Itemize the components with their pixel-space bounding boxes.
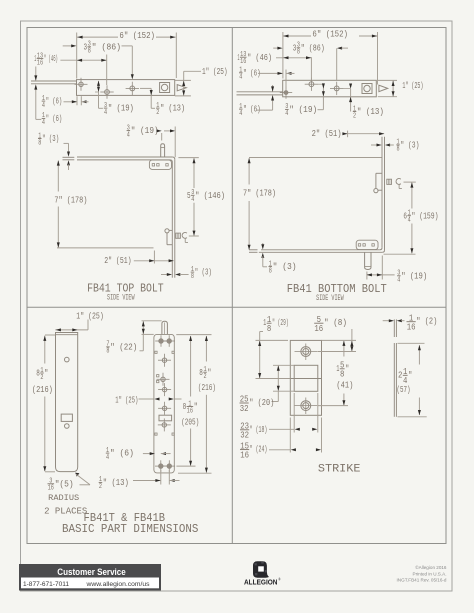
- svg-text:2: 2: [40, 374, 43, 382]
- Q2 top view: hole 2: [309, 82, 314, 87]
- svg-text:2: 2: [99, 483, 102, 491]
- svg-text:4: 4: [239, 74, 242, 82]
- Q1 side view: bolt rod up: [161, 144, 165, 157]
- svg-text:" (29): " (29): [272, 317, 289, 328]
- Q1 dim 5-3/4in (146): [178, 157, 198, 159]
- svg-text:" (3): " (3): [273, 261, 297, 272]
- svg-text:"(5): "(5): [55, 478, 74, 489]
- Q1 top view: guide square with circle: [160, 83, 170, 93]
- Q2 side view: bolt guide block: [356, 240, 378, 249]
- Q2 side view: vertical channel: [381, 137, 383, 248]
- svg-text:" (6): " (6): [243, 104, 261, 115]
- Q3 top reference line right: [176, 334, 211, 336]
- svg-text:" (6): " (6): [243, 67, 261, 78]
- svg-text:8: 8: [267, 324, 271, 334]
- svg-text:" (19): " (19): [401, 270, 427, 281]
- Q2 side view: top reference line: [249, 157, 382, 159]
- svg-text:8: 8: [36, 368, 40, 379]
- Q1 dim 6in (152) line: [77, 36, 118, 38]
- svg-text:BASIC PART DIMENSIONS: BASIC PART DIMENSIONS: [62, 522, 199, 536]
- svg-text:16: 16: [407, 323, 416, 333]
- Q3 right plate corner squares bottom: [155, 433, 157, 435]
- Q3 right plate bottom hole pair: [159, 464, 163, 468]
- Q1 side view: bottom reference line: [57, 247, 154, 249]
- svg-text:16: 16: [187, 407, 193, 415]
- svg-text:4: 4: [408, 217, 411, 225]
- Q4 strike middle bend line: [290, 378, 321, 380]
- Q2 side view: bottom plate reference line: [384, 253, 416, 255]
- Q3 left plate FB41T outline: [56, 333, 78, 472]
- Q2 side view: bolt rod down: [365, 252, 371, 269]
- svg-text:": ": [408, 369, 412, 380]
- Q3 right plate rod at top: [162, 321, 168, 334]
- Q1 side view: knurled knob: [176, 233, 181, 238]
- svg-text:" (86): " (86): [301, 42, 325, 53]
- Q2 centerline symbol: [396, 179, 401, 185]
- svg-text:1" (25): 1" (25): [76, 310, 104, 321]
- svg-text:" (13): " (13): [103, 477, 129, 488]
- svg-text:" (86): " (86): [92, 41, 122, 52]
- svg-text:" (6): " (6): [46, 113, 62, 124]
- Q2 dim 6in (152) line: [283, 35, 311, 37]
- svg-text:3: 3: [84, 41, 88, 52]
- Q1 top view: bolt rod (edge-on) extending left: [31, 80, 77, 82]
- svg-text:(57): (57): [397, 384, 411, 395]
- svg-text:" (3): " (3): [400, 140, 419, 151]
- svg-text:" (3): " (3): [195, 267, 212, 278]
- Q1 top view: hole 1: [79, 82, 83, 86]
- svg-text:" (159): " (159): [412, 210, 439, 221]
- svg-text:" (8): " (8): [324, 317, 347, 328]
- allegion logo glyph: [253, 561, 269, 577]
- svg-text:8: 8: [106, 348, 109, 356]
- svg-text:" (146): " (146): [195, 190, 225, 201]
- Q1 dim 1in (25) at bolt tip: [175, 79, 191, 81]
- Q2 side view: knurled knob: [387, 179, 392, 184]
- svg-text:2" (51): 2" (51): [104, 255, 131, 266]
- Q2 side view: flat bar stub: [249, 249, 258, 251]
- svg-text:SIDE VIEW: SIDE VIEW: [107, 294, 135, 303]
- svg-text:1" (25): 1" (25): [115, 395, 138, 406]
- Q3 right plate lower hole: [162, 423, 166, 427]
- Q1 dim 7in (178) overall height: [57, 161, 59, 192]
- svg-text:" (6): " (6): [46, 96, 62, 107]
- Q3 right plate FB41B outline: [154, 334, 174, 473]
- svg-text:8: 8: [397, 146, 400, 154]
- Q3 right plate mount cluster: [157, 375, 159, 377]
- svg-text:" (46): " (46): [247, 52, 272, 63]
- svg-text:16: 16: [314, 324, 323, 334]
- Q2 top view: hole 3: [334, 86, 339, 91]
- Q1 side view: vertical channel: [174, 159, 176, 277]
- Q3 right plate middle hole: [162, 406, 166, 410]
- Q4 strike plate outline: [290, 340, 321, 415]
- Q3 right plate top hole pair: [159, 339, 163, 343]
- Q2 side view: release lever: [374, 189, 378, 193]
- Q3 right plate corner squares top: [155, 351, 157, 353]
- Q1 dim 6in extension lines: [76, 33, 78, 79]
- Q2 top view: hole 1: [284, 91, 288, 95]
- svg-text:www.allegion.com/us: www.allegion.com/us: [85, 581, 150, 588]
- svg-text:": ": [194, 401, 198, 412]
- Q1 side view: release lever: [165, 229, 169, 233]
- svg-text:5: 5: [187, 190, 191, 201]
- svg-text:7" (178): 7" (178): [54, 195, 87, 206]
- svg-text:©Allegion 2016: ©Allegion 2016: [415, 564, 447, 570]
- svg-text:2: 2: [204, 373, 207, 381]
- footer customer service box: [19, 564, 161, 591]
- svg-text:4: 4: [106, 454, 109, 462]
- svg-text:6" (152): 6" (152): [312, 29, 348, 40]
- svg-text:6: 6: [403, 210, 407, 221]
- Q2 top view: pointed bolt tip: [379, 85, 388, 91]
- Q2 dim 7in (178): [248, 158, 250, 184]
- Q4 dim 25/32in (20): [277, 366, 279, 391]
- Q1 top view: hole 3: [130, 86, 135, 91]
- vertical divider between quadrants: [231, 28, 233, 544]
- svg-text:4: 4: [285, 110, 288, 118]
- svg-text:4: 4: [104, 109, 107, 117]
- svg-text:4: 4: [42, 102, 45, 110]
- Q3 left plate hole 2: [65, 424, 70, 429]
- Q2 dim 6in extension lines: [282, 32, 284, 79]
- Q1 dim 3-3/8in (86) leader and text: [63, 45, 73, 47]
- Q1 top view: flat bar body: [77, 80, 175, 96]
- svg-text:" (3): " (3): [42, 133, 59, 144]
- svg-text:" (13): " (13): [160, 103, 185, 114]
- svg-text:2: 2: [398, 369, 403, 380]
- Q3 dim 8-1/2in (216) right: [205, 336, 207, 362]
- Q4 dim 2-1/4in (57): [418, 345, 420, 364]
- Q1 dim 3/4in (19) below bar: [98, 81, 100, 108]
- Q3 dim 8-1/2in (216) left: [45, 334, 55, 336]
- svg-text:2" (51): 2" (51): [312, 128, 342, 139]
- Q4 dim 1/16in (2): [383, 320, 390, 322]
- svg-text:6" (152): 6" (152): [119, 30, 155, 41]
- svg-text:16: 16: [240, 58, 246, 66]
- Q1 side view: flat bar edge-on: [77, 156, 173, 158]
- Q2 reference line from knob centerline: [404, 181, 416, 183]
- svg-text:(216): (216): [32, 384, 53, 395]
- svg-text:" (19): " (19): [131, 125, 159, 136]
- svg-text:16: 16: [48, 485, 54, 493]
- Q2 dim 3/4in (19) rod offset: [366, 272, 368, 280]
- Q1 dim 1/8in (3) channel thickness: [161, 274, 167, 276]
- Q1 side view: flat bar stub (dim ext): [63, 156, 75, 158]
- svg-text:STRIKE: STRIKE: [318, 463, 361, 475]
- Q2 dim 1/8in (3) channel thickness: [371, 144, 377, 146]
- horizontal divider between quadrants: [27, 306, 446, 308]
- svg-text:16: 16: [240, 450, 249, 460]
- svg-text:(216): (216): [198, 382, 216, 393]
- svg-text:INGT.FB41 Rev. 05/16-d: INGT.FB41 Rev. 05/16-d: [397, 578, 447, 583]
- Q2 top view: flat bar body: [283, 80, 377, 97]
- Q4 strike top screw hole: [301, 347, 311, 357]
- svg-text:Printed in U.S.A.: Printed in U.S.A.: [413, 571, 447, 576]
- svg-text:Customer Service: Customer Service: [57, 567, 126, 577]
- svg-text:4: 4: [127, 131, 130, 139]
- svg-text:8: 8: [88, 48, 91, 56]
- Q4 strike side view thin plate main segment: [393, 343, 395, 417]
- svg-text:4: 4: [42, 119, 45, 127]
- Q1 dim 1/2in (13) below bar: [140, 87, 151, 89]
- svg-text:2: 2: [156, 109, 159, 117]
- Q2 top view: bolt rod (edge-on) extending left: [237, 91, 283, 93]
- svg-text:2 PLACES: 2 PLACES: [44, 507, 87, 517]
- svg-text:16: 16: [37, 59, 43, 67]
- svg-text:4: 4: [191, 196, 194, 204]
- svg-text:8: 8: [297, 49, 300, 57]
- Q1 top view: pointed bolt tip: [177, 85, 186, 91]
- Q4 strike box opening: [294, 365, 318, 391]
- Q3 right plate slot: [159, 415, 172, 421]
- svg-text:" (19): " (19): [289, 104, 317, 115]
- Q2 dim 1/2in (13) below bar: [350, 89, 352, 112]
- svg-text:" (6): " (6): [110, 448, 134, 459]
- svg-text:": ": [44, 368, 48, 379]
- svg-text:" (18): " (18): [250, 424, 267, 435]
- svg-text:" (2): " (2): [416, 316, 437, 327]
- Q3 right plate hole row: [162, 358, 166, 362]
- Q2 side view: flat bar edge-on at bottom: [261, 249, 380, 251]
- Q2 top view: guide square with circle: [362, 84, 372, 94]
- svg-text:3: 3: [293, 42, 297, 53]
- svg-text:ALLEGION: ALLEGION: [244, 577, 278, 586]
- Q2 dim 6-1/4in (159): [411, 183, 413, 209]
- Q3 left plate hole 1: [65, 357, 70, 362]
- svg-text:4: 4: [397, 277, 400, 285]
- svg-text:8: 8: [191, 273, 194, 281]
- svg-text:8: 8: [340, 370, 344, 380]
- svg-text:": ": [345, 363, 349, 374]
- Q2 dim 1in (25) at bolt tip: [378, 79, 397, 81]
- svg-text:": ": [207, 367, 211, 378]
- svg-text:" (46): " (46): [44, 53, 58, 64]
- Q4 strike bottom screw hole: [301, 401, 311, 411]
- svg-text:(205): (205): [181, 417, 199, 428]
- Q3 radius leader: [75, 473, 79, 477]
- Q4 strike side view thin plate upper lip segment: [393, 319, 395, 337]
- svg-text:8: 8: [269, 267, 272, 275]
- svg-text:" (13): " (13): [357, 106, 384, 117]
- svg-text:" (19): " (19): [108, 103, 134, 114]
- Q3 left plate slot: [61, 414, 72, 421]
- svg-text:" (20): " (20): [249, 397, 274, 408]
- svg-text:" (24): " (24): [250, 444, 267, 455]
- svg-text:(41): (41): [336, 379, 353, 390]
- svg-text:1-877-671-7011: 1-877-671-7011: [23, 581, 69, 588]
- Q1 hole2 centerline extension: [106, 55, 108, 86]
- svg-text:7" (178): 7" (178): [243, 187, 276, 198]
- svg-text:8: 8: [38, 139, 41, 147]
- svg-text:8: 8: [183, 401, 187, 412]
- Q3 dim 8-1/16in (205): [190, 336, 192, 397]
- Q1 centerline symbol: [182, 232, 187, 238]
- inner border frame: [27, 28, 446, 544]
- svg-text:1" (25): 1" (25): [402, 80, 423, 91]
- Q1 top view: hole 2: [105, 90, 110, 95]
- Q4 dim 1-5/8in (41): [343, 341, 345, 357]
- Q1 side view: bolt guide block: [149, 160, 171, 169]
- Q4 side view reference lines: [398, 342, 425, 344]
- svg-text:32: 32: [240, 431, 249, 441]
- Q3 dim 7/8in (22) rod length: [142, 320, 162, 322]
- svg-text:4: 4: [239, 110, 242, 118]
- svg-text:2: 2: [353, 112, 356, 120]
- svg-text:32: 32: [240, 404, 249, 414]
- svg-text:RADIUS: RADIUS: [48, 493, 79, 503]
- svg-text:1" (25): 1" (25): [202, 66, 228, 77]
- svg-text:SIDE VIEW: SIDE VIEW: [316, 294, 344, 303]
- svg-text:" (22): " (22): [110, 342, 137, 353]
- Q2 dim 3-3/8in (86): [273, 47, 279, 49]
- svg-text:8: 8: [199, 367, 203, 378]
- Q2 dim 1/8in (3) plate thickness: [262, 243, 264, 245]
